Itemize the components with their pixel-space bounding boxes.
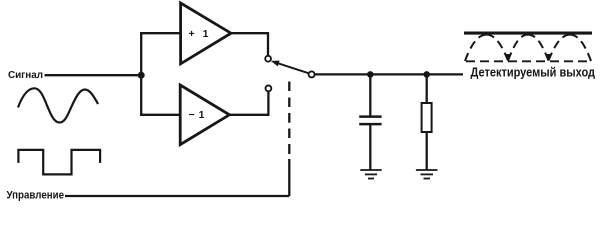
arrowhead at cusp 2 — [546, 54, 552, 61]
rectified waveform dashed arches — [465, 35, 591, 61]
junction node resistor — [423, 71, 430, 78]
output level bar (thick line) — [464, 32, 592, 35]
dashed zero baseline — [466, 60, 590, 62]
wire switch pole to output — [315, 73, 463, 75]
switch throw contact bottom — [266, 86, 272, 92]
capacitor C1 — [359, 74, 381, 170]
resistor R1 — [422, 74, 432, 170]
junction node capacitor — [367, 71, 374, 78]
svg-text:Сигнал: Сигнал — [8, 70, 43, 81]
ground under resistor — [416, 170, 438, 179]
switch throw contact top — [265, 56, 271, 62]
wire to -1 amp input — [141, 75, 181, 115]
wire signal input — [45, 74, 142, 76]
square wave sketch — [18, 150, 100, 175]
svg-text:Управление: Управление — [7, 189, 65, 201]
dashed control link to switch — [288, 82, 290, 197]
wire +1 output to switch — [231, 33, 268, 55]
arrowhead at cusp 1 — [505, 54, 511, 61]
wire -1 output to switch — [229, 91, 268, 114]
wire control — [65, 195, 289, 197]
switch pole contact — [309, 71, 315, 77]
node signal junction — [138, 72, 145, 79]
op-amp U1 +1 — [181, 3, 231, 64]
svg-text:− 1: − 1 — [189, 109, 205, 121]
sine waveform sketch — [18, 88, 98, 122]
op-amp U2 -1 — [180, 85, 229, 145]
ground under capacitor — [360, 170, 381, 179]
svg-text:+ 1: + 1 — [189, 28, 209, 40]
wire to +1 amp input — [141, 33, 181, 75]
switch arm with arrow — [271, 61, 309, 74]
svg-text:Детектируемый выход: Детектируемый выход — [471, 65, 596, 80]
